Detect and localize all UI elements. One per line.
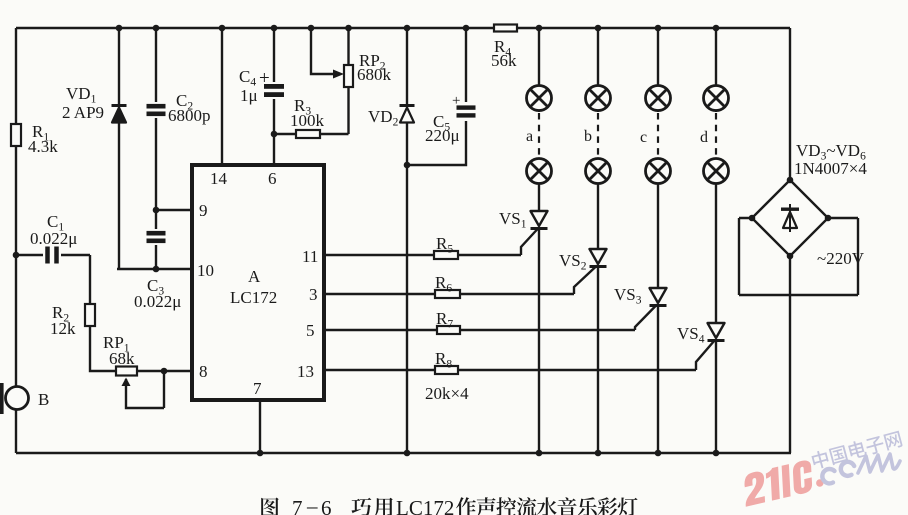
svg-text:13: 13	[297, 362, 314, 381]
svg-text:6: 6	[268, 169, 277, 188]
svg-text:4.3k: 4.3k	[28, 137, 58, 156]
svg-text:10: 10	[197, 261, 214, 280]
svg-text:56k: 56k	[491, 51, 517, 70]
svg-text:~220V: ~220V	[817, 249, 865, 268]
svg-text:220μ: 220μ	[425, 126, 460, 145]
svg-text:7: 7	[292, 496, 303, 515]
svg-text:12k: 12k	[50, 319, 76, 338]
svg-text:LC172: LC172	[230, 288, 277, 307]
svg-text:1N4007×4: 1N4007×4	[794, 159, 867, 178]
svg-text:1μ: 1μ	[240, 86, 258, 105]
svg-text:11: 11	[302, 247, 318, 266]
svg-text:+: +	[259, 68, 270, 89]
svg-text:0.022μ: 0.022μ	[134, 292, 181, 311]
svg-text:B: B	[38, 390, 49, 409]
svg-text:d: d	[700, 129, 708, 146]
svg-text:100k: 100k	[290, 111, 325, 130]
svg-text:0.022μ: 0.022μ	[30, 229, 77, 248]
svg-text:6: 6	[321, 496, 332, 515]
svg-text:5: 5	[306, 321, 315, 340]
svg-text:A: A	[248, 267, 261, 286]
svg-text:3: 3	[309, 285, 318, 304]
svg-text:b: b	[584, 128, 592, 145]
svg-text:a: a	[526, 128, 533, 145]
svg-text:–: –	[306, 494, 318, 515]
svg-text:9: 9	[199, 201, 208, 220]
svg-text:+: +	[452, 93, 460, 109]
svg-text:68k: 68k	[109, 349, 135, 368]
svg-text:8: 8	[199, 362, 208, 381]
svg-text:7: 7	[253, 379, 262, 398]
svg-text:LC172: LC172	[396, 496, 454, 515]
svg-text:14: 14	[210, 169, 228, 188]
svg-text:680k: 680k	[357, 65, 392, 84]
svg-text:c: c	[640, 129, 647, 146]
svg-text:20k×4: 20k×4	[425, 384, 469, 403]
svg-text:2 AP9: 2 AP9	[62, 103, 104, 122]
svg-text:6800p: 6800p	[168, 106, 211, 125]
